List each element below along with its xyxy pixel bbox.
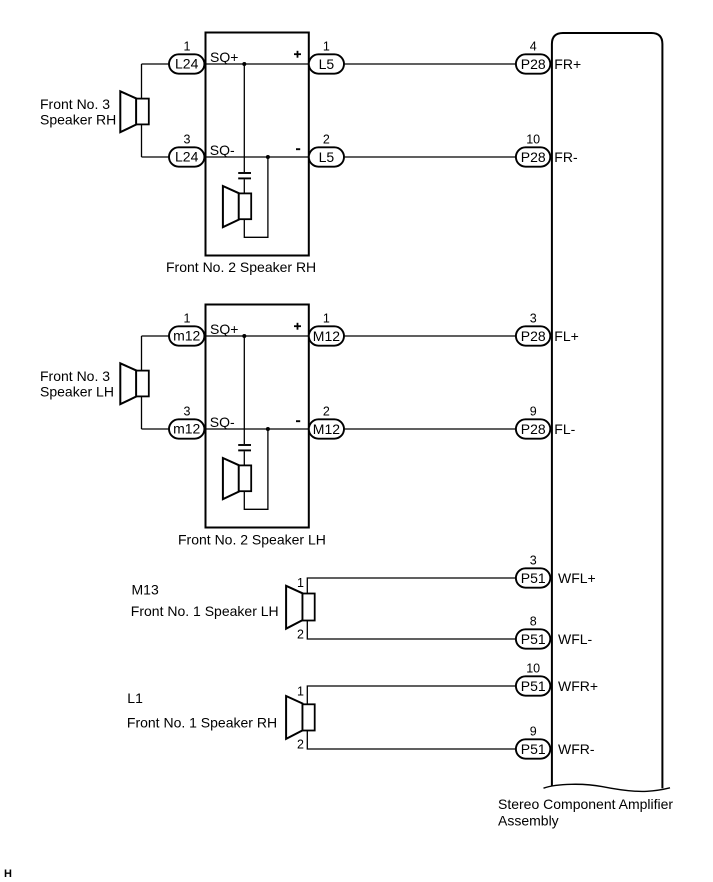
svg-text:2: 2 bbox=[323, 133, 330, 147]
svg-text:WFR-: WFR- bbox=[558, 741, 595, 757]
wire left vertical speaker RH bbox=[141, 64, 143, 157]
node junction SQ+ LH bbox=[242, 334, 246, 338]
connector M12 pin 2 oval bbox=[309, 419, 344, 438]
capacitor C (LH box) bbox=[238, 445, 251, 450]
svg-text:P51: P51 bbox=[521, 678, 546, 694]
node junction SQ+ RH bbox=[242, 62, 246, 66]
svg-text:Front No. 2 Speaker RH: Front No. 2 Speaker RH bbox=[166, 259, 316, 275]
svg-text:L5: L5 bbox=[319, 56, 335, 72]
svg-text:H: H bbox=[4, 868, 12, 880]
wire FL- (row y=429) bbox=[142, 428, 517, 430]
svg-text:2: 2 bbox=[297, 738, 304, 752]
wire FR+ (row y=64) bbox=[142, 63, 517, 65]
svg-text:FL+: FL+ bbox=[554, 328, 579, 344]
speaker tweeter in LH box bbox=[223, 458, 251, 499]
connector L24 pin 1 oval bbox=[169, 54, 204, 73]
polarity + LH bbox=[294, 323, 301, 330]
svg-text:Speaker LH: Speaker LH bbox=[40, 383, 114, 399]
svg-text:8: 8 bbox=[530, 615, 537, 629]
wire tweeter return to SQ- LH bbox=[244, 429, 268, 509]
connector P51 pin 8 oval bbox=[516, 629, 550, 648]
svg-text:M13: M13 bbox=[132, 582, 159, 598]
svg-text:m12: m12 bbox=[173, 421, 200, 437]
box Front No. 2 Speaker RH bbox=[206, 33, 309, 256]
connector L5 pin 2 oval bbox=[309, 147, 344, 166]
svg-text:M12: M12 bbox=[313, 328, 340, 344]
node junction SQ- LH bbox=[266, 427, 270, 431]
connector P51 pin 9 oval bbox=[516, 739, 550, 758]
speaker tweeter in RH box bbox=[223, 186, 251, 227]
svg-text:SQ+: SQ+ bbox=[210, 49, 238, 65]
svg-text:FR-: FR- bbox=[554, 149, 578, 165]
svg-text:Front No. 3: Front No. 3 bbox=[40, 96, 110, 112]
svg-text:P28: P28 bbox=[521, 56, 546, 72]
svg-text:3: 3 bbox=[184, 133, 191, 147]
svg-text:WFL-: WFL- bbox=[558, 631, 593, 647]
connector P28 pin 10 oval bbox=[516, 147, 550, 166]
polarity - LH bbox=[296, 420, 300, 422]
svg-text:1: 1 bbox=[323, 312, 330, 326]
svg-text:WFL+: WFL+ bbox=[558, 570, 596, 586]
svg-text:9: 9 bbox=[530, 405, 537, 419]
wire SQ+ to capacitor RH bbox=[243, 64, 245, 172]
speaker Front No. 1 Speaker RH bbox=[286, 696, 315, 739]
connector M12 pin 1 oval bbox=[309, 326, 344, 345]
speaker Front No. 3 Speaker LH bbox=[120, 363, 149, 404]
svg-text:P28: P28 bbox=[521, 421, 546, 437]
wire capacitor to tweeter RH bbox=[243, 179, 245, 193]
svg-text:Front No. 1 Speaker LH: Front No. 1 Speaker LH bbox=[131, 603, 279, 619]
svg-text:1: 1 bbox=[184, 312, 191, 326]
wire SQ+ to capacitor LH bbox=[243, 336, 245, 444]
svg-text:FL-: FL- bbox=[554, 421, 575, 437]
capacitor C (RH box) bbox=[238, 173, 251, 178]
svg-text:2: 2 bbox=[323, 405, 330, 419]
svg-text:Front No. 3: Front No. 3 bbox=[40, 368, 110, 384]
svg-text:Speaker RH: Speaker RH bbox=[40, 111, 116, 127]
svg-text:P28: P28 bbox=[521, 328, 546, 344]
svg-text:3: 3 bbox=[184, 405, 191, 419]
svg-text:Assembly: Assembly bbox=[498, 813, 559, 829]
svg-text:P28: P28 bbox=[521, 149, 546, 165]
wire WFR- (row y=749) bbox=[307, 731, 516, 750]
polarity - RH bbox=[296, 148, 300, 150]
wire WFL- (row y=639) bbox=[307, 621, 516, 640]
node junction SQ- RH bbox=[266, 155, 270, 159]
connector P51 pin 3 oval bbox=[516, 568, 550, 587]
connector P51 pin 10 oval bbox=[516, 676, 550, 695]
svg-text:1: 1 bbox=[297, 576, 304, 590]
wire WFR+ (row y=686) bbox=[307, 686, 516, 704]
connector P28 pin 4 oval bbox=[516, 54, 550, 73]
connector m12 pin 3 oval bbox=[169, 419, 204, 438]
svg-text:P51: P51 bbox=[521, 570, 546, 586]
speaker Front No. 3 Speaker RH bbox=[120, 91, 149, 132]
svg-text:M12: M12 bbox=[313, 421, 340, 437]
svg-text:L24: L24 bbox=[175, 149, 199, 165]
svg-text:P51: P51 bbox=[521, 631, 546, 647]
svg-text:Front No. 2 Speaker LH: Front No. 2 Speaker LH bbox=[178, 532, 326, 548]
box Front No. 2 Speaker LH bbox=[206, 305, 309, 528]
svg-text:2: 2 bbox=[297, 628, 304, 642]
connector P28 pin 9 oval bbox=[516, 419, 550, 438]
svg-text:L1: L1 bbox=[127, 690, 143, 706]
svg-text:10: 10 bbox=[526, 133, 540, 147]
connector L24 pin 3 oval bbox=[169, 147, 204, 166]
svg-text:4: 4 bbox=[530, 40, 537, 54]
svg-text:m12: m12 bbox=[173, 328, 200, 344]
svg-text:L5: L5 bbox=[319, 149, 335, 165]
svg-text:FR+: FR+ bbox=[554, 56, 581, 72]
connector P28 pin 3 oval bbox=[516, 326, 550, 345]
svg-text:1: 1 bbox=[184, 40, 191, 54]
svg-text:WFR+: WFR+ bbox=[558, 678, 598, 694]
svg-text:SQ-: SQ- bbox=[210, 142, 235, 158]
svg-text:Front No. 1 Speaker RH: Front No. 1 Speaker RH bbox=[127, 715, 277, 731]
svg-text:Stereo Component Amplifier: Stereo Component Amplifier bbox=[498, 796, 673, 812]
wire WFL+ (row y=578) bbox=[307, 578, 516, 594]
wire tweeter return to SQ- RH bbox=[244, 157, 268, 237]
svg-text:3: 3 bbox=[530, 554, 537, 568]
svg-text:P51: P51 bbox=[521, 741, 546, 757]
connector L5 pin 1 oval bbox=[309, 54, 344, 73]
svg-text:10: 10 bbox=[526, 662, 540, 676]
svg-text:1: 1 bbox=[297, 685, 304, 699]
svg-text:L24: L24 bbox=[175, 56, 199, 72]
wire capacitor to tweeter LH bbox=[243, 451, 245, 465]
svg-text:1: 1 bbox=[323, 40, 330, 54]
svg-text:SQ+: SQ+ bbox=[210, 321, 238, 337]
svg-text:3: 3 bbox=[530, 312, 537, 326]
wire FR- (row y=157) bbox=[142, 156, 517, 158]
connector m12 pin 1 oval bbox=[169, 326, 204, 345]
wire left vertical speaker LH bbox=[141, 336, 143, 429]
amplifier box Stereo Component Amplifier Assembly bbox=[552, 33, 663, 788]
polarity + RH bbox=[294, 51, 301, 58]
amplifier box break wavy line bbox=[544, 784, 671, 791]
speaker Front No. 1 Speaker LH bbox=[286, 586, 315, 629]
wire FL+ (row y=336) bbox=[142, 335, 517, 337]
svg-text:SQ-: SQ- bbox=[210, 414, 235, 430]
svg-text:9: 9 bbox=[530, 725, 537, 739]
